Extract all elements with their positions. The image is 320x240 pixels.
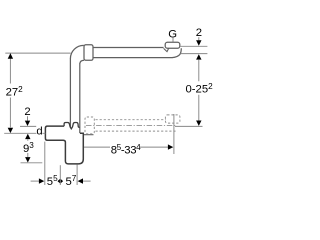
arrow left to ext C [78,178,83,183]
dim 2 left arrow down [25,121,30,126]
svg-text:2: 2 [196,27,202,39]
dim 5.7 tail right [83,180,91,182]
svg-text:85-334: 85-334 [111,143,141,157]
shared arrow up (2 left / 9.3) [25,134,30,139]
ext line trap bottom [21,162,43,164]
dim 5.5/5.7 tail left [31,180,39,182]
svg-text:93: 93 [23,141,34,155]
ext line outlet center left [20,125,36,127]
dim 2 right stem [198,37,200,40]
dim 2 right arrow down [196,40,201,45]
dim 9.3 arrow down [25,157,30,162]
svg-text:2: 2 [24,106,30,118]
G leader stem [172,38,174,43]
top pipe upper line [93,47,164,49]
dashed nut lowered position [165,115,180,123]
dim 2 left stem [27,116,29,121]
elbow outer arc [70,45,83,58]
dashed pipe bottom line [96,130,178,132]
dim 27.2 line [9,54,11,128]
dashed pipe top line [96,119,166,121]
pipe right end bend up [172,48,181,57]
ext line C pipe axis [76,165,78,185]
ext line stub center left [4,132,45,134]
vertical inlet pipe wall right [79,63,81,133]
dim 27.2 arrow down [8,128,13,133]
extension line top (27.2 ref) [5,52,70,54]
elbow sleeve socket [84,45,93,61]
dim 0-25.2 line [198,60,200,121]
svg-text:57: 57 [66,174,77,188]
svg-text:272: 272 [6,85,24,99]
dim 27.2 arrow up [8,53,13,58]
svg-text:55: 55 [47,174,58,188]
arrow right to dashed end [168,144,173,149]
shared arrow up (2 right / 0-25.2) [196,54,201,59]
elbow inner arc [80,60,84,63]
svg-text:d: d [36,126,42,138]
outlet bottom short line [84,134,94,136]
dim 8.5-33.4 line seg2 [140,146,170,148]
nut G [165,42,180,48]
top pipe lower line [93,57,172,59]
centerline dash-dot [86,125,176,127]
diamond shared arrows [58,179,64,184]
ext line pipe center right [181,53,208,55]
trap union nut profile [64,123,80,129]
vertical inlet pipe wall left [69,58,71,127]
ext line A stub left [44,142,46,185]
svg-text:0-252: 0-252 [186,82,214,96]
trap body outline [45,126,83,164]
svg-text:G: G [168,28,177,40]
dim 8.5-33.4 line seg1 [84,146,110,148]
ext line outlet center right [175,125,203,127]
ext line B cup axis [59,165,61,185]
dim 9.3 line [27,139,29,157]
V notch under nut [164,48,169,51]
dashed sleeve lowered position [85,117,94,134]
ext line nut right [180,45,207,47]
ext line dashed pipe end [173,114,175,154]
dim 0-25.2 arrow down [196,121,201,126]
arrow right to ext A [39,178,44,183]
